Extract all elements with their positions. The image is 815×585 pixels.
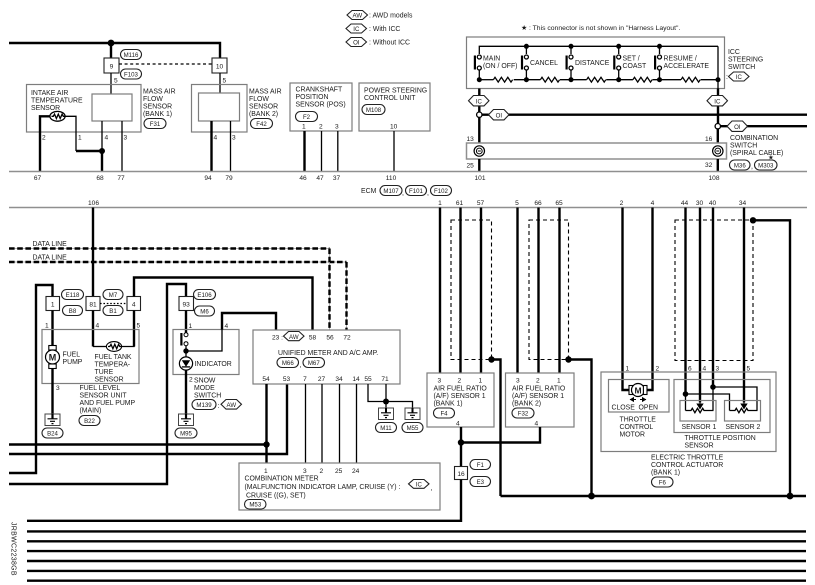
connector label M36 [730, 160, 751, 170]
svg-text:F102: F102 [434, 188, 449, 195]
hexagon IC on left leg [469, 96, 490, 106]
svg-text:10: 10 [390, 124, 398, 131]
svg-text:,: , [427, 190, 429, 197]
svg-text:58: 58 [309, 335, 317, 342]
MAFS bank1 inner box [92, 94, 132, 121]
wire ICC left leg down [478, 89, 480, 113]
svg-text:CRUISE ((G), SET): CRUISE ((G), SET) [246, 493, 306, 500]
svg-text:★ : This connector is not show: ★ : This connector is not shown in "Harn… [521, 24, 680, 32]
svg-text:ICC: ICC [728, 49, 740, 56]
connector label B1 [103, 306, 123, 316]
svg-text:COAST: COAST [623, 63, 648, 70]
svg-text:5: 5 [223, 78, 227, 85]
wire left leg below node to combination switch [478, 117, 480, 143]
connector label M7 [103, 290, 123, 300]
svg-text:MAIN: MAIN [483, 56, 500, 63]
wire fuel gauge sender to unified meter pin 58 [134, 278, 313, 331]
wire MAFS2 pin4 to ECM 94 [210, 121, 212, 172]
svg-text:1: 1 [438, 200, 442, 207]
svg-text:M: M [49, 353, 57, 363]
svg-text:4: 4 [96, 323, 100, 330]
ground M55 [405, 408, 420, 420]
throttle motor open arrow [640, 398, 646, 402]
off-page continuation line 6 [27, 580, 806, 582]
svg-text:M303: M303 [758, 163, 774, 170]
wire ECM 44 to TPS pin 6 [684, 208, 686, 395]
svg-text:3: 3 [438, 378, 442, 385]
connector label B22 [79, 416, 100, 426]
connector label F6 [652, 477, 674, 487]
svg-text:DATA LINE: DATA LINE [33, 241, 68, 248]
fuel pump motor [46, 346, 60, 369]
wire crank pin1 to ECM 46 [303, 131, 305, 172]
svg-text:(BANK 2): (BANK 2) [512, 401, 541, 408]
svg-text:POWER STEERING: POWER STEERING [364, 88, 427, 95]
connector 10 [212, 58, 227, 73]
wire combination meter feed 1 from off-page left [9, 443, 267, 445]
svg-text:25: 25 [335, 468, 343, 475]
svg-text:23 :: 23 : [272, 335, 283, 342]
shield bank2 junction dot [565, 356, 571, 362]
svg-text::: : [218, 403, 220, 410]
ECM band top edge [9, 171, 807, 173]
wire unified 7 to comb meter pin 3 [305, 384, 307, 463]
svg-text:77: 77 [117, 175, 125, 182]
off-page continuation line 1 [27, 530, 806, 532]
wire connector93 to snow switch pin 1 [185, 311, 187, 333]
svg-text:IC: IC [353, 26, 360, 33]
svg-text:CANCEL: CANCEL [530, 60, 558, 67]
svg-text:: AWD models: : AWD models [369, 13, 413, 20]
sensor1 box [680, 401, 716, 422]
wire thermistor right to pin1 [65, 116, 76, 151]
svg-text:5: 5 [137, 323, 141, 330]
off-page continuation line 4 [27, 560, 806, 562]
svg-text:61: 61 [456, 200, 464, 207]
ICC top rail junction dots [524, 44, 529, 49]
fuel level sensor unit box [42, 330, 139, 384]
svg-text:M55: M55 [407, 425, 419, 432]
svg-text:B8: B8 [69, 308, 77, 315]
svg-text:,: , [751, 164, 753, 171]
svg-text:(MALFUNCTION INDICATOR LAMP, C: (MALFUNCTION INDICATOR LAMP, CRUISE (Y) … [245, 484, 401, 491]
svg-text:CONTROL ACTUATOR: CONTROL ACTUATOR [651, 462, 723, 469]
svg-text:B22: B22 [84, 418, 95, 425]
MAFS bank2 inner box [199, 93, 240, 121]
svg-text:9: 9 [110, 63, 114, 70]
throttle motor symbol [629, 384, 647, 397]
wire indicator to ground M95 [185, 370, 187, 414]
wire unified 27 to comb meter pin 2 [321, 384, 323, 463]
ICC contact drops to bottom rail [478, 70, 480, 80]
wire junction to pin 4 riser [186, 330, 222, 352]
wire connector1 to fuel pump pin 1 [51, 311, 53, 347]
crankshaft position sensor box [290, 83, 352, 131]
svg-text:M53: M53 [249, 502, 261, 509]
wire unified 34 to comb meter pin 25 [339, 384, 341, 463]
svg-text:93: 93 [183, 302, 191, 309]
svg-text:(A/F) SENSOR 1: (A/F) SENSOR 1 [512, 393, 564, 400]
svg-text:POSITION: POSITION [296, 94, 329, 101]
svg-text:(BANK 2): (BANK 2) [249, 111, 278, 118]
svg-text:4: 4 [651, 200, 655, 207]
svg-text:5: 5 [515, 200, 519, 207]
sensor1 resistor [686, 408, 714, 412]
wire connector4 to pin 5 [133, 311, 135, 347]
svg-text:MODE: MODE [194, 385, 215, 392]
svg-text:1: 1 [78, 135, 82, 142]
wire branch to ground M55 [386, 402, 413, 409]
wire connector 9 to MAFS1 pin 5 [110, 73, 112, 94]
svg-text:2: 2 [620, 200, 624, 207]
connector label E118 [62, 290, 84, 300]
svg-text:FUEL TANK: FUEL TANK [95, 354, 132, 361]
svg-text:(A/F) SENSOR 1: (A/F) SENSOR 1 [434, 393, 486, 400]
junction dot meter feed [263, 441, 269, 447]
connector label M55 [402, 423, 423, 433]
wire ECM 61 to A/F sensor bank1 pin 2 [459, 208, 461, 374]
svg-text:INDICATOR: INDICATOR [195, 361, 232, 368]
connector 9 (M116/F103) [104, 58, 119, 73]
wire MAFS1 pin3 to ECM 77 [121, 121, 123, 172]
svg-text:IC: IC [736, 74, 743, 81]
wire ECM 34 to TPS pin 5 wiper [743, 208, 745, 403]
svg-text:M139: M139 [196, 402, 212, 409]
svg-text:79: 79 [225, 175, 233, 182]
svg-text:7: 7 [303, 376, 307, 383]
svg-text:(BANK 1): (BANK 1) [651, 470, 680, 477]
hexagon AW unified meter [284, 332, 305, 341]
shield TPS junction dot [750, 217, 756, 223]
svg-text:(MAIN): (MAIN) [80, 408, 102, 415]
connector label F42 [251, 119, 273, 129]
wire connector16 to off-page bottom left [27, 480, 461, 521]
resistor R4 ICC [633, 77, 652, 82]
svg-text:OI: OI [734, 124, 741, 131]
throttle control motor sub-box [609, 380, 670, 413]
connector label F31 [144, 119, 166, 129]
svg-text:OPEN: OPEN [639, 405, 659, 412]
svg-text:ECM: ECM [361, 188, 377, 195]
ICC stalk verticals to contacts [525, 46, 527, 54]
connector label M139 [192, 400, 216, 410]
svg-text:CRANKSHAFT: CRANKSHAFT [296, 87, 343, 94]
dashed link between connector 9 and connector 10 [119, 63, 212, 65]
svg-text::: : [726, 74, 728, 81]
connector label M11 [376, 423, 397, 433]
connector label M107 [380, 186, 402, 196]
junction dot pin1/pin4 [99, 148, 105, 154]
wire ECM 57 to A/F sensor bank1 pin 1 [480, 208, 482, 374]
svg-text:4: 4 [456, 421, 460, 428]
wire drop to connector 9 [110, 43, 112, 58]
connector 4 [127, 297, 141, 311]
connector label E106 [194, 290, 216, 300]
wire unified 14 to comb meter pin 24 [356, 384, 358, 463]
svg-text:13: 13 [467, 136, 475, 143]
svg-text:,: , [300, 362, 302, 369]
svg-text:55: 55 [364, 376, 372, 383]
switch CANCEL [521, 55, 529, 70]
connector label B8 [63, 306, 83, 316]
svg-text:IC: IC [714, 99, 721, 106]
throttle position sensor sub-box [674, 380, 770, 433]
svg-text:F101: F101 [409, 188, 424, 195]
power steering control unit box [359, 83, 430, 131]
svg-text:SWITCH: SWITCH [728, 64, 755, 71]
connector label F4 [434, 408, 455, 418]
svg-text:(BANK 1): (BANK 1) [434, 401, 463, 408]
svg-text:IC: IC [416, 482, 423, 489]
svg-text:E3: E3 [477, 479, 485, 486]
connector 1 (E118/B8) [46, 297, 60, 311]
svg-text:101: 101 [474, 175, 485, 182]
sensor2 resistor [730, 408, 758, 412]
svg-text:UNIFIED METER AND A/C AMP.: UNIFIED METER AND A/C AMP. [278, 350, 378, 357]
ICC bottom rail junction dots [477, 77, 482, 82]
connector label F101 [406, 186, 427, 196]
svg-text:14: 14 [352, 376, 360, 383]
sensor1 wiper arrow [697, 402, 703, 409]
wire ECM 5 to A/F sensor bank2 pin 3 [516, 208, 518, 374]
svg-text:40: 40 [709, 200, 717, 207]
wire cruise feed from off-page left to unified 53 [9, 384, 287, 454]
svg-text:81: 81 [89, 302, 97, 309]
svg-text:1: 1 [302, 124, 306, 131]
resistor R1 ICC [493, 77, 512, 82]
shield TPS dashed box [675, 220, 753, 361]
connector label M116 [121, 50, 142, 60]
svg-text:1: 1 [51, 302, 55, 309]
junction dot A/F grounds [458, 439, 464, 445]
connector label F103 [121, 69, 142, 79]
ICC right rail [717, 46, 719, 88]
wire MAFS2 pin3 to ECM 79 [230, 121, 232, 172]
svg-text:F31: F31 [150, 121, 161, 128]
legend hexagon IC [346, 24, 367, 33]
svg-text:4: 4 [214, 135, 218, 142]
wire TPS 6 into sensor1 left [685, 394, 687, 411]
wire TPS 3 into sensor1 right [712, 387, 714, 411]
snow mode switch box [173, 330, 239, 375]
air fuel ratio sensor bank1 box [427, 373, 494, 427]
svg-text:SENSOR (POS): SENSOR (POS) [296, 102, 346, 109]
svg-text:106: 106 [88, 200, 99, 207]
wire unified 71 to ground M11 [385, 384, 387, 408]
wire OI branch left to off-page right [482, 113, 807, 115]
connector label M6 [195, 306, 215, 316]
wire junction to connector 16 [460, 443, 462, 467]
svg-text:2: 2 [319, 124, 323, 131]
svg-text:,: , [402, 190, 404, 197]
wire A/F bank2 pin4 to junction [461, 427, 540, 443]
svg-text:30: 30 [696, 200, 704, 207]
svg-text:3: 3 [516, 378, 520, 385]
svg-text:F32: F32 [518, 411, 529, 418]
svg-text:PUMP: PUMP [63, 359, 83, 366]
svg-text:RESUME /: RESUME / [664, 56, 697, 63]
shield bank2 dashed box [529, 220, 569, 360]
svg-text:M67: M67 [308, 360, 320, 367]
wire fuel pump feed from off-page left [9, 285, 53, 473]
wire spiral cable right to ECM 108 [717, 159, 719, 172]
mass air flow sensor bank2 outer box [192, 85, 248, 133]
junction dot ground bus bank2 [588, 493, 595, 500]
svg-text:M107: M107 [383, 188, 399, 195]
wire A/F bank1 pin4 down to junction [460, 427, 462, 443]
wire pin4 to thermistor left [93, 346, 107, 348]
svg-text:M6: M6 [200, 309, 209, 316]
data line 2 (CAN) dashed [9, 261, 347, 263]
wire ECM 65 to A/F sensor bank2 pin 1 [558, 208, 560, 374]
connector label M53 [245, 500, 267, 510]
svg-text:TEMPERATURE: TEMPERATURE [31, 98, 83, 105]
connector label M95 [175, 428, 197, 438]
wire PS pin10 to ECM 110 [393, 131, 395, 172]
wire thermistor to pin2 and ECM 67 [40, 116, 50, 171]
svg-text:6: 6 [688, 366, 692, 373]
data line 2 drop to unified meter pin 72 [346, 262, 348, 330]
wire OI branch right to off-page right [721, 125, 808, 127]
svg-text:1: 1 [626, 366, 630, 373]
connector label M66 [277, 358, 299, 368]
wire connector 10 to MAFS2 pin 5 [219, 73, 221, 93]
connector 81 (M7/B1) [86, 297, 100, 311]
snow switch contact [180, 333, 188, 346]
svg-text:32: 32 [705, 162, 713, 169]
hexagon AW snow switch [221, 400, 242, 410]
wire pin1 elbow to junction on pin4 wire [76, 150, 102, 152]
svg-text:3: 3 [232, 135, 236, 142]
svg-text:AW: AW [289, 334, 299, 341]
wire ECM 1 to A/F sensor bank1 pin 3 [439, 208, 441, 374]
svg-text:SWITCH: SWITCH [194, 393, 221, 400]
spiral cable connector left [474, 146, 484, 156]
unified meter and A/C amp box [253, 330, 400, 384]
junction dot TPS wire6 [683, 391, 689, 397]
hexagon OI on left branch [489, 110, 510, 120]
svg-text:SENSOR: SENSOR [143, 104, 172, 111]
indicator lamp snow switch [179, 357, 192, 370]
svg-text:4: 4 [703, 366, 707, 373]
svg-text:2: 2 [656, 366, 660, 373]
svg-text:57: 57 [477, 200, 485, 207]
svg-text:DATA LINE: DATA LINE [33, 255, 68, 262]
svg-text:SENSOR UNIT: SENSOR UNIT [80, 393, 128, 400]
svg-text:THROTTLE: THROTTLE [620, 417, 657, 424]
svg-text:ACCELERATE: ACCELERATE [664, 63, 710, 70]
svg-text:25: 25 [467, 163, 475, 170]
svg-text:3: 3 [303, 468, 307, 475]
thermistor fuel tank temperature sensor [106, 342, 121, 352]
connector label M303 [755, 160, 778, 170]
intake air temperature sensor / MAFS bank1 outer box [27, 85, 142, 133]
wire ECM 2 to throttle motor pin 1 [623, 208, 630, 391]
svg-text:2: 2 [189, 377, 193, 384]
connector label F2 [296, 112, 318, 122]
thermistor intake air temp sensor [50, 111, 65, 121]
svg-text:1: 1 [479, 378, 483, 385]
wire connector81 to pin 4 [92, 311, 94, 347]
svg-text:COMBINATION METER: COMBINATION METER [245, 476, 319, 483]
svg-text:AW: AW [353, 13, 363, 20]
svg-text:FUEL: FUEL [63, 352, 81, 359]
connector label E3 [470, 477, 491, 487]
svg-text:CLOSE: CLOSE [612, 405, 636, 412]
svg-text:65: 65 [555, 200, 563, 207]
wire fuel pump to ground B24 [51, 369, 53, 415]
svg-text:AIR FUEL RATIO: AIR FUEL RATIO [512, 386, 566, 393]
hexagon IC on right leg [707, 96, 728, 106]
svg-text:2: 2 [458, 378, 462, 385]
svg-text:SENSOR: SENSOR [95, 377, 124, 384]
junction dot TPS wire3 [710, 384, 716, 390]
svg-text:ELECTRIC THROTTLE: ELECTRIC THROTTLE [651, 455, 724, 462]
switch RESUME/ACCELERATE [654, 55, 662, 70]
wire crank pin2 to ECM 47 [321, 131, 323, 172]
svg-text:24: 24 [352, 468, 360, 475]
spiral cable connector right [713, 146, 723, 156]
sensor2 wiper arrow [741, 402, 747, 409]
svg-text:INTAKE AIR: INTAKE AIR [31, 90, 68, 97]
svg-text:108: 108 [708, 175, 719, 182]
ICC top rail [479, 46, 718, 54]
wire thermistor right to pin5 [122, 330, 135, 347]
svg-text:M116: M116 [124, 52, 139, 59]
svg-text:,: , [431, 485, 433, 492]
off-page continuation line 2 [27, 540, 806, 542]
svg-text:3: 3 [716, 366, 720, 373]
svg-text:FLOW: FLOW [249, 96, 269, 103]
svg-text:AW: AW [227, 402, 237, 409]
svg-text:SENSOR: SENSOR [249, 104, 278, 111]
switch MAIN (ON/OFF) [474, 55, 482, 70]
off-page continuation line 5 [27, 570, 806, 572]
svg-text:F1: F1 [477, 462, 485, 469]
svg-text:B24: B24 [47, 431, 58, 438]
ECM band bottom edge [9, 207, 807, 209]
wire ICC right leg down [717, 89, 719, 124]
svg-text:MASS AIR: MASS AIR [143, 89, 176, 96]
svg-text:(SPIRAL CABLE): (SPIRAL CABLE) [730, 150, 783, 157]
svg-text:44: 44 [681, 200, 689, 207]
svg-text:F6: F6 [659, 480, 667, 487]
air fuel ratio sensor bank2 box [506, 373, 575, 427]
svg-text:67: 67 [34, 175, 42, 182]
wire contact to junction [185, 346, 187, 357]
connector 93 (E106/M6) [179, 297, 194, 311]
switch DISTANCE [566, 55, 574, 70]
svg-text:3: 3 [335, 124, 339, 131]
svg-text:34: 34 [739, 200, 747, 207]
ICC steering switch box [467, 37, 725, 89]
svg-text:E118: E118 [66, 292, 80, 299]
combination meter box [239, 463, 440, 510]
svg-text:M66: M66 [282, 360, 294, 367]
hexagon OI on right branch [727, 121, 748, 131]
svg-text:72: 72 [343, 335, 351, 342]
svg-text:COMBINATION: COMBINATION [730, 135, 778, 142]
junction dot snow switch [183, 348, 188, 353]
svg-text:SNOW: SNOW [194, 378, 216, 385]
svg-text:110: 110 [386, 175, 397, 182]
svg-text:F2: F2 [303, 114, 311, 121]
legend hexagon OI [346, 38, 367, 47]
wire ECM 66 to A/F sensor bank2 pin 2 [537, 208, 539, 374]
svg-text:F4: F4 [440, 411, 448, 418]
svg-text:M: M [634, 385, 641, 395]
ground bus bottom right [501, 495, 807, 497]
